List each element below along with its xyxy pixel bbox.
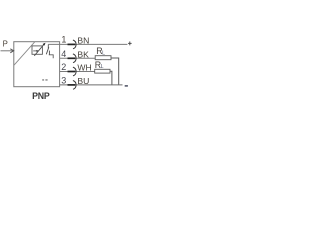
pin 3 male contact — [68, 84, 76, 86]
svg-text:4: 4 — [61, 49, 66, 59]
plus terminal — [128, 42, 132, 44]
corner diagonal (proximity flag) — [14, 42, 35, 65]
proximity sensor element U1 — [32, 46, 42, 54]
pin 1 connector socket — [73, 40, 76, 49]
resistor RL1 — [95, 56, 111, 60]
svg-text:3: 3 — [61, 76, 66, 86]
actuation arrow shaft through U1 — [34, 45, 43, 56]
resistor RL2 — [95, 69, 110, 73]
svg-text:P: P — [3, 39, 8, 48]
dashes inside box — [42, 79, 44, 80]
internal output arrow of U1 — [33, 50, 36, 52]
svg-text:BU: BU — [77, 76, 89, 86]
svg-text:PNP: PNP — [32, 91, 50, 101]
svg-text:2: 2 — [61, 62, 66, 72]
minus terminal — [125, 85, 128, 87]
wire pin 3 (BU) minus rail — [60, 84, 123, 86]
pin 1 male contact — [68, 43, 76, 45]
svg-text:L: L — [101, 64, 104, 70]
pin 2 male contact — [68, 71, 76, 73]
svg-text:BN: BN — [77, 35, 89, 45]
switch Q1 top stub — [47, 44, 49, 48]
pin 3 connector socket — [73, 81, 76, 90]
svg-text:BK: BK — [77, 49, 89, 59]
P input wire — [1, 50, 14, 52]
wire pin 1 (BN) — [48, 43, 127, 45]
pin 4 male contact — [68, 57, 76, 59]
sensor body box — [14, 42, 60, 87]
wire pin 4 (BK) — [60, 57, 96, 59]
svg-text:1: 1 — [61, 35, 66, 45]
switch Q1 bottom stub — [48, 51, 50, 55]
wire RL1 to minus rail — [111, 58, 119, 85]
pin 4 connector socket — [73, 54, 76, 63]
wire RL2 to minus rail — [110, 71, 112, 85]
svg-text:WH: WH — [77, 62, 91, 72]
switch Q1 lever — [46, 47, 49, 54]
pin 2 connector socket — [73, 67, 76, 76]
svg-text:L: L — [102, 50, 105, 56]
wire switch bottom to pin 4 — [49, 55, 53, 59]
wire pin 2 (WH) — [60, 71, 95, 73]
P arrowhead (open) — [10, 49, 13, 53]
actuation arrowhead — [43, 43, 46, 46]
